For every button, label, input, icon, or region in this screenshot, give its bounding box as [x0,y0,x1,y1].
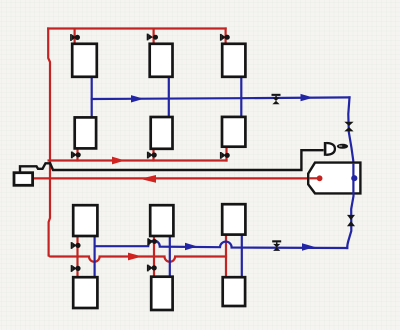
gate valve X on riser lower [347,215,355,226]
valve row2 col2 [147,152,157,159]
wire: boiler red supply main y=178.5 [33,177,318,179]
valve row2 col1 [71,152,81,159]
wire: blue riser to boiler [347,97,353,248]
radiator R2 [150,44,173,77]
node: red dot at boiler inlet [317,175,323,181]
wire: bottom col1 blue drop [93,236,95,277]
radiator R7 [73,205,97,236]
radiator R9 [222,204,245,234]
arrow: boiler supply left [140,175,156,183]
radiator R1 [72,44,97,77]
wire: row2 col2 valve stub [152,149,154,161]
wire: bottom col3 blue drop [241,235,243,278]
valve row1 col3 [220,34,230,41]
arrow: bottom collector right (near riser) [302,243,315,250]
boiler B1 [308,163,360,194]
wire: row1 col1 valve stub [73,30,75,44]
wire: bottom col1 red drop pipe [76,236,78,277]
valve bottom col1 lower [71,265,81,272]
radiator R8 [150,205,173,236]
wire: row1 col2 valve stub [153,30,155,44]
wire: row2 col3 valve stub [225,147,227,161]
radiator R11 [151,277,172,310]
radiator R4 [75,117,96,148]
valve row1 col1 [70,34,80,41]
valve row1 col2 [147,34,158,41]
valve bottom col2 upper [147,238,157,245]
arrow: top collector right [301,94,314,101]
wire: top blue collector y=97 [92,97,350,99]
gate valve X on riser upper [344,122,353,132]
radiator R5 [151,117,173,149]
pump U1 (D symbol) [324,142,327,156]
wire: col3 blue drop rad3->rad6 [240,77,242,117]
radiator R12 [223,277,245,306]
valve bottom col2 lower [147,265,157,272]
radiator R3 [222,44,245,77]
wire: bottom col2 red drop pipe [153,236,155,277]
wire: bottom col2 blue drop [169,236,171,277]
wire: col2 blue drop rad2->rad5 [168,77,170,117]
valve templates drawn per instance [70,34,355,272]
wire: blue riser through boiler [352,163,354,195]
pump flow blob [337,144,348,149]
wire: left red riser x=48 [48,29,50,256]
wire: red supply inside boiler [309,177,317,179]
valve bottom col1 upper [71,242,81,249]
valve on bottom collector (stem + gate) [272,240,281,251]
arrow: bottom supply right [128,253,142,261]
wire: row1 col3 valve stub [225,29,227,44]
wire: bottom blue collector y=247 with hops over red drops [95,241,348,248]
radiator R6 [222,117,245,147]
wire: row2 col1 valve stub [76,148,78,160]
wire: col1 blue drop rad1->rad4 [91,77,93,117]
wire: bottom red supply main y=256.5 with hops over blue drops [49,255,226,261]
arrow: bottom collector right (left one) [185,243,198,250]
wire: black expansion/safety pipe with hop over red riser [20,150,324,173]
valve on top collector (stem + gate) [272,94,281,105]
wire: bottom col3 red drop pipe [225,235,227,278]
valve row2 col3 [220,152,230,159]
wire: mid red supply line y=160.5 [49,159,227,161]
expansion tank [14,173,33,186]
arrow: top collector right (left one) [131,95,144,102]
wire: top red supply main y=28 [48,27,225,29]
arrow: mid supply right [112,157,125,165]
radiator R10 [73,277,97,308]
node: blue dot in boiler [351,175,357,181]
